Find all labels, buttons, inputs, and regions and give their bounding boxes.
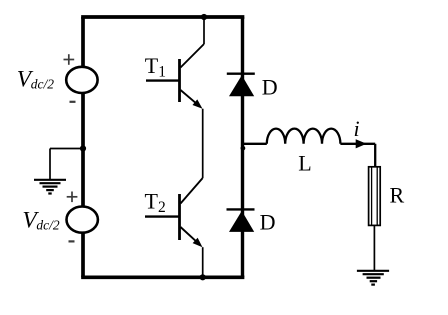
svg-text:R: R [390,182,405,207]
wire bottom rail [83,275,243,279]
svg-text:D: D [260,210,276,235]
label D (top diode) [262,75,278,100]
transistor Q2 (T2) [145,178,203,247]
wire ground tap vertical [49,149,51,180]
current arrow i [356,139,367,148]
label L [298,150,311,175]
wire T1 emitter to T2 collector [202,109,204,178]
polarity + of V2 [67,192,78,203]
wire top rail [83,15,243,19]
svg-text:D: D [262,75,278,100]
wire corner down to resistor [374,144,376,167]
ground (left, between sources) [34,180,66,194]
transistor Q2 label T2 [145,188,166,215]
node junction top rail (T1 collector tap) [201,14,207,20]
resistor R (box) [369,167,381,226]
polarity - of V1 [70,101,76,103]
svg-text:L: L [298,150,311,175]
value label Vdc/2 (V2) [22,208,59,234]
svg-text:T: T [145,53,159,78]
label i [354,116,360,141]
wire ground tap horizontal [50,148,83,150]
svg-text:dc/2: dc/2 [31,76,54,91]
svg-text:2: 2 [158,199,166,216]
node junction left bus (ground tap) [80,145,86,151]
wire load tap to inductor [243,143,267,145]
wire resistor to ground [373,225,375,270]
wire inductor to corner [340,143,375,145]
diode D2 (bottom) [227,209,255,232]
transistor Q1 label T1 [145,53,166,80]
svg-text:dc/2: dc/2 [36,217,59,232]
value label Vdc/2 (V1) [17,67,54,93]
voltage source V1 (Vdc/2, circle) [66,67,97,93]
voltage source V2 (Vdc/2, circle) [67,207,98,233]
label R [390,182,405,207]
node junction right bus (load tap) [241,146,246,151]
svg-text:T: T [145,188,159,213]
diode D1 (top) [227,74,255,97]
polarity + of V1 [64,54,75,65]
wire T2 emitter to bottom rail [202,247,204,277]
ground (right, under resistor) [357,271,389,285]
polarity - of V2 [69,240,75,242]
node junction bottom rail (T2 emitter tap) [200,274,206,280]
inductor L [267,129,341,144]
wire right bus [241,17,244,277]
label D (bottom diode) [260,210,276,235]
svg-text:i: i [354,116,360,141]
wire T1 collector vertical [203,17,205,44]
transistor Q1 (T1) [146,44,204,109]
svg-text:1: 1 [158,63,166,80]
wire left bus [81,17,85,277]
